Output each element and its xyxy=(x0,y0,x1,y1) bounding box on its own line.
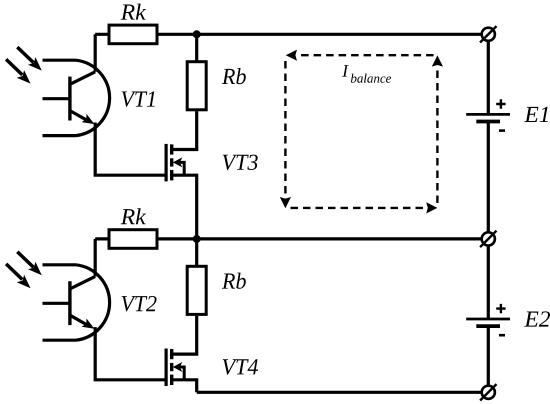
wire VT2 collector drop xyxy=(94,239,97,277)
wire VT3 drain to Rb xyxy=(172,111,197,149)
wire right rail segment 2 xyxy=(487,122,490,233)
label VT4 xyxy=(223,359,258,374)
label VT1 xyxy=(122,91,155,107)
battery E2 positive plate xyxy=(466,318,510,321)
balance loop arrow up (right edge) xyxy=(432,55,443,66)
wire top rail xyxy=(95,33,482,36)
wire VT4 source lead xyxy=(172,380,197,393)
battery E1 plus sign xyxy=(496,99,505,108)
light arrow 1 into VT1 xyxy=(17,47,42,71)
wire middle rail xyxy=(95,237,482,240)
resistor Rk (stage 2) xyxy=(109,230,157,249)
MOSFET VT4 body arrow xyxy=(173,362,184,380)
phototransistor VT2 collector diagonal xyxy=(70,276,95,289)
label E1 xyxy=(524,107,548,122)
label VT2 xyxy=(122,296,157,312)
phototransistor VT1 bottom lead xyxy=(43,134,77,137)
phototransistor VT2 base bar xyxy=(68,281,71,325)
node A junction dot xyxy=(193,30,201,38)
wire VT1 collector drop xyxy=(94,34,97,72)
resistor Rk (stage 1) xyxy=(109,25,157,44)
label VT3 xyxy=(223,155,258,171)
battery E2 negative plate xyxy=(476,324,500,328)
dashed balance loop left edge xyxy=(284,61,286,197)
resistor Rb (stage 2) xyxy=(187,266,206,314)
terminal middle terminal xyxy=(480,231,496,247)
wire VT3 source lead xyxy=(172,175,197,239)
wire VT1 emitter to VT3 gate xyxy=(95,123,164,176)
label Rk (stage 2) xyxy=(121,208,146,224)
wire right rail segment 4 xyxy=(487,326,490,386)
battery E1 positive plate xyxy=(466,113,510,116)
battery E1 negative plate xyxy=(476,120,500,124)
phototransistor VT2 emitter with arrow xyxy=(70,315,95,329)
wire VT2 emitter to VT4 gate xyxy=(95,327,164,380)
wire node A to Rb1 xyxy=(195,34,198,61)
label Rk (stage 1) xyxy=(121,4,146,20)
balance loop arrow left (top edge) xyxy=(286,50,297,61)
label E2 xyxy=(524,311,550,326)
terminal bottom terminal xyxy=(480,384,496,400)
phototransistor VT1 collector diagonal xyxy=(70,72,95,85)
battery E2 plus sign xyxy=(496,304,505,313)
phototransistor VT2 base lead xyxy=(43,302,69,305)
phototransistor VT1 base bar xyxy=(68,77,71,121)
light arrow 2 into VT2 xyxy=(6,264,30,288)
terminal top terminal xyxy=(480,26,496,42)
wire node B to Rb2 xyxy=(195,239,198,266)
wire VT4 drain to Rb xyxy=(172,316,197,354)
label Rb (stage 2) xyxy=(222,273,246,289)
phototransistor VT1 emitter with arrow xyxy=(70,111,95,125)
battery E2 minus sign xyxy=(499,334,505,337)
light arrow 1 into VT2 xyxy=(17,252,42,276)
phototransistor VT2 top lead xyxy=(43,263,77,266)
phototransistor VT1 top lead xyxy=(43,59,77,62)
balance loop arrow right (bottom edge) xyxy=(426,202,437,213)
battery E1 minus sign xyxy=(499,129,505,132)
wire bottom rail xyxy=(197,391,482,394)
dashed balance loop right edge xyxy=(436,66,438,203)
dashed balance loop top edge xyxy=(298,54,434,56)
dashed balance loop bottom edge xyxy=(291,207,426,209)
MOSFET VT4 channel bars xyxy=(170,349,173,385)
wire right rail segment 1 xyxy=(487,41,490,115)
phototransistor VT2 bottom lead xyxy=(43,339,77,342)
light arrow 2 into VT1 xyxy=(6,59,30,83)
phototransistor VT1 base lead xyxy=(43,97,69,100)
phototransistor VT2 envelope arc xyxy=(76,265,110,340)
balance loop arrow down (left edge) xyxy=(280,197,291,208)
MOSFET VT4 gate bar xyxy=(165,349,168,387)
label I balance xyxy=(342,65,391,83)
phototransistor VT1 envelope arc xyxy=(76,60,110,135)
node B junction dot xyxy=(193,235,201,243)
MOSFET VT3 gate bar xyxy=(165,144,168,182)
MOSFET VT3 channel bars xyxy=(170,144,173,180)
MOSFET VT3 body arrow xyxy=(173,157,184,175)
label Rb (stage 1) xyxy=(222,68,246,84)
resistor Rb (stage 1) xyxy=(187,62,206,110)
wire right rail segment 3 xyxy=(487,246,490,320)
